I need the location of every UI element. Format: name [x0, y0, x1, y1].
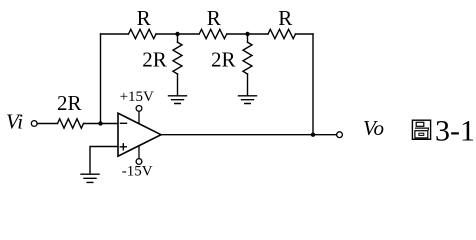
resistor R2 (top ladder, middle) — [199, 29, 227, 38]
svg-text:R: R — [278, 6, 292, 30]
ground (first shunt) — [169, 96, 187, 104]
ground (non-inverting input) — [81, 174, 99, 182]
svg-text:R: R — [207, 6, 221, 30]
svg-text:-15V: -15V — [122, 164, 153, 180]
wire: top feedback bus y=34 from left corner to right corner — [101, 33, 314, 35]
wire: left vertical from top bus down to inverting input node — [100, 34, 102, 124]
svg-text:2R: 2R — [211, 47, 236, 71]
op-amp plus sign — [120, 144, 126, 150]
resistor 2R (input series) — [58, 119, 84, 128]
node junction dot: output node — [311, 133, 315, 137]
wire: stub from node A down to first 2R — [177, 34, 179, 42]
pin: -15V stub and terminal circle — [138, 146, 140, 159]
svg-text:Vo: Vo — [363, 116, 384, 140]
svg-text:2R: 2R — [57, 91, 82, 115]
wire: non-inverting input to ground — [90, 147, 118, 174]
svg-text:Vi: Vi — [6, 109, 23, 133]
pin: +15V stub and terminal circle — [138, 111, 140, 124]
svg-text:+15V: +15V — [120, 89, 154, 105]
resistor R3 (top ladder, right) — [268, 29, 296, 38]
terminal Vi (input open circle) — [31, 121, 37, 127]
caption glyph 圖 (hand drawn) — [412, 120, 430, 139]
wire: right vertical from top bus down to output node — [312, 34, 314, 135]
wire: Vi terminal to input resistor — [37, 123, 57, 125]
resistor 2R (second shunt, vertical) — [243, 42, 252, 74]
svg-text:R: R — [137, 6, 151, 30]
ground (second shunt) — [239, 96, 257, 104]
node junction dot: node A (top, first shunt) — [175, 32, 179, 36]
svg-text:3-1: 3-1 — [435, 115, 475, 148]
resistor 2R (first shunt, vertical) — [173, 42, 182, 74]
wire: second 2R to ground — [247, 74, 249, 96]
node junction dot: node B (top, second shunt) — [245, 32, 249, 36]
svg-text:2R: 2R — [142, 47, 167, 71]
wire: first 2R to ground — [177, 74, 179, 96]
op-amp minus sign — [121, 122, 127, 124]
terminal Vo (output open circle) — [337, 132, 343, 138]
wire: stub from node B down to second 2R — [247, 34, 249, 42]
wire: op-amp output to Vo terminal — [161, 134, 337, 136]
resistor R1 (top ladder, left) — [129, 29, 157, 38]
node junction dot: inverting input — [98, 121, 102, 125]
op-amp U1 triangle — [118, 113, 161, 156]
wire: input resistor to op-amp inverting input — [84, 123, 119, 125]
